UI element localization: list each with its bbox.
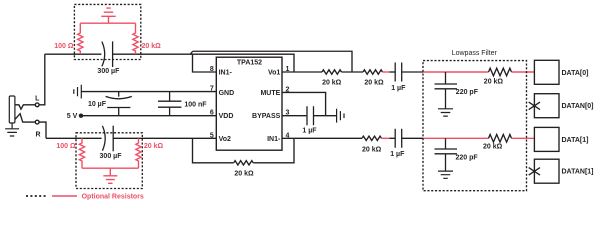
svg-text:20 kΩ: 20 kΩ <box>322 80 342 87</box>
no-connect X DATAN[0] <box>529 102 540 110</box>
svg-text:VDD: VDD <box>219 113 234 120</box>
wire junction to pin 8 <box>193 54 217 72</box>
terminal circle L <box>35 103 39 107</box>
node DATAN[0] box <box>534 94 559 118</box>
svg-text:1 µF: 1 µF <box>302 128 317 135</box>
wire red segment before C7 <box>382 137 390 139</box>
svg-text:Optional Resistors: Optional Resistors <box>82 193 144 200</box>
capacitor C9 220pF (filter bottom) <box>435 138 458 171</box>
resistor 20k optional (top box right) <box>133 23 138 54</box>
capacitor C8 220pF (filter top) <box>435 72 458 109</box>
switch contact R <box>15 114 35 122</box>
wire input row left <box>45 53 102 55</box>
wire R terminal down <box>39 122 46 138</box>
wire red rail bottom box <box>82 167 139 169</box>
wire MUTE pin 2 <box>282 92 326 115</box>
node 5V dot <box>79 114 83 118</box>
svg-text:220 pF: 220 pF <box>456 89 479 96</box>
terminal circle R <box>35 120 39 124</box>
wire Vo1 pin 1 row <box>282 71 322 73</box>
wire red filter bottom right <box>512 137 535 139</box>
svg-text:20 kΩ: 20 kΩ <box>144 143 164 150</box>
svg-text:DATAN[0]: DATAN[0] <box>562 103 594 110</box>
optional resistors dashed box (bottom) <box>76 133 142 189</box>
wire red filter top right <box>512 71 535 73</box>
resistor 20k R6 (filter) <box>489 135 512 143</box>
no-connect X DATAN[1] <box>529 168 540 176</box>
red optional components <box>52 8 164 200</box>
svg-text:300 µF: 300 µF <box>97 68 120 75</box>
ground (filter bottom) <box>438 171 453 178</box>
resistor 100R optional (bottom box left) <box>79 138 84 168</box>
wire red filter bottom left <box>423 137 489 139</box>
wire VDD rail pin 6 <box>81 115 216 117</box>
resistor 20k R4 <box>362 136 381 140</box>
capacitor C2 300uF (bottom input) <box>102 126 113 152</box>
resistor 100R optional (top box left) <box>78 23 83 54</box>
capacitor C4 100nF (supply) <box>158 92 181 116</box>
wire between R1 R2 <box>342 71 364 73</box>
svg-text:IN1-: IN1- <box>267 136 281 143</box>
svg-text:100 nF: 100 nF <box>184 102 207 109</box>
switch contact L <box>15 105 35 109</box>
wire pin 4 row <box>282 137 362 139</box>
wire red filter top left <box>423 71 489 73</box>
resistor 20k R1 <box>322 70 341 74</box>
capacitor C3 10uF (supply) <box>106 92 132 116</box>
svg-text:TPA152: TPA152 <box>237 60 262 67</box>
ground (bypass, pointing right) <box>337 109 344 123</box>
svg-text:BYPASS: BYPASS <box>252 113 281 120</box>
svg-text:IN1-: IN1- <box>219 70 233 77</box>
capacitor C7 1uF (bottom output) <box>395 129 402 148</box>
optional resistors dashed box (top) <box>74 4 140 59</box>
svg-text:MUTE: MUTE <box>260 90 280 97</box>
wire C7 to filter <box>402 137 423 139</box>
svg-text:100 Ω: 100 Ω <box>56 143 76 150</box>
resistor 20k optional (bottom box right) <box>136 138 141 168</box>
wire feedback riser <box>190 51 192 54</box>
wire red rail top box <box>80 22 135 24</box>
ground (GND rail, pointing left) <box>74 85 82 99</box>
op-amp U1 TPA152 body <box>216 57 282 150</box>
svg-text:DATA[0]: DATA[0] <box>562 70 589 77</box>
lowpass filter dashed box <box>423 61 527 191</box>
wire red segment before C6 <box>383 71 390 73</box>
wire bypass to ground <box>314 115 337 117</box>
ground (jack) <box>5 123 19 136</box>
wire bottom feedback right <box>253 138 294 163</box>
svg-text:100 Ω: 100 Ω <box>54 43 74 50</box>
svg-text:300 µF: 300 µF <box>100 153 123 160</box>
svg-text:10 µF: 10 µF <box>88 101 107 108</box>
node DATAN[1] box <box>534 159 559 183</box>
svg-text:20 kΩ: 20 kΩ <box>484 79 504 86</box>
svg-text:1 µF: 1 µF <box>391 85 406 92</box>
ground (top optional, inverted) <box>101 8 115 23</box>
ground (filter top) <box>438 109 453 116</box>
legend dotted line <box>26 195 47 197</box>
svg-text:220 pF: 220 pF <box>456 155 479 162</box>
svg-text:20 kΩ: 20 kΩ <box>364 80 384 87</box>
resistor 20k R5 (filter) <box>489 68 512 76</box>
svg-text:GND: GND <box>219 90 235 97</box>
svg-text:8: 8 <box>210 66 214 73</box>
legend red line <box>52 195 77 197</box>
svg-text:Lowpass Filter: Lowpass Filter <box>452 50 498 57</box>
svg-text:1 µF: 1 µF <box>390 151 405 158</box>
capacitor C6 1uF (top output) <box>395 63 402 82</box>
svg-text:20 kΩ: 20 kΩ <box>234 171 254 178</box>
svg-text:L: L <box>35 95 40 102</box>
audio jack J1 <box>9 96 15 123</box>
svg-text:20 kΩ: 20 kΩ <box>142 43 162 50</box>
wire to C7 <box>390 137 396 139</box>
svg-text:20 kΩ: 20 kΩ <box>483 144 503 151</box>
svg-text:R: R <box>35 131 40 138</box>
svg-text:5: 5 <box>210 132 214 139</box>
capacitor C1 300uF (top input) <box>102 41 113 67</box>
resistor 20k R3 (bottom feedback) <box>234 161 253 165</box>
svg-text:5 V: 5 V <box>67 113 78 120</box>
resistor 20k R2 <box>363 70 382 74</box>
svg-text:20 kΩ: 20 kΩ <box>362 147 382 154</box>
svg-text:DATA[1]: DATA[1] <box>562 137 589 144</box>
wire bottom feedback left <box>193 138 234 163</box>
wire L terminal to input row <box>39 54 45 105</box>
svg-text:Vo2: Vo2 <box>219 136 231 143</box>
wire to C6 <box>390 71 396 73</box>
wire input row bottom <box>46 137 102 139</box>
wire BYPASS pin 3 <box>282 115 306 117</box>
svg-text:Vo1: Vo1 <box>268 70 280 77</box>
ground (bottom optional) <box>103 168 117 183</box>
svg-text:DATAN[1]: DATAN[1] <box>562 169 594 176</box>
node DATA[0] box <box>534 60 559 84</box>
node DATA[1] box <box>534 127 559 151</box>
wire GND rail pin 7 <box>81 91 216 93</box>
wire C6 to filter <box>402 71 423 73</box>
wire top feedback <box>193 51 352 72</box>
capacitor C5 1uF (bypass) <box>307 106 314 125</box>
